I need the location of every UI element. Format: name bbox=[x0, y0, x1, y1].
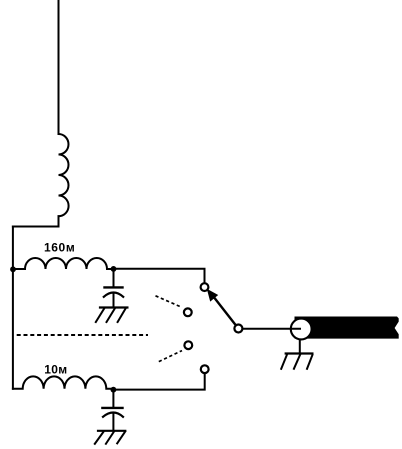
coax connector circle bbox=[291, 319, 312, 340]
capacitor C1 curved plate bbox=[104, 293, 123, 297]
switch S1 contact 4 (bottom) bbox=[201, 365, 209, 373]
dashed link to contact 3 bbox=[159, 351, 182, 362]
mechanical link dashed line bbox=[17, 334, 148, 336]
switch S1 pole contact bbox=[234, 325, 242, 333]
capacitor C1 top plate bbox=[105, 286, 123, 288]
coax cable body bbox=[295, 317, 399, 339]
ground G2 bar bbox=[98, 430, 125, 432]
ground G2 hatch 1 bbox=[95, 432, 104, 444]
svg-text:160м: 160м bbox=[44, 240, 75, 254]
junction node at 10m coil right bbox=[111, 387, 117, 393]
wire coil bottom to corner bbox=[58, 216, 60, 226]
wire left bus bbox=[12, 227, 14, 389]
junction node at 160m coil left bbox=[10, 266, 16, 272]
ground G2 hatch 3 bbox=[117, 432, 125, 444]
switch S1 contact 3 bbox=[184, 341, 192, 349]
ground G1 hatch 1 bbox=[96, 309, 104, 323]
switch S1 contact 1 (top) bbox=[201, 283, 209, 291]
capacitor C2 curved plate bbox=[103, 413, 123, 417]
capacitor C2 bottom lead bbox=[112, 414, 114, 431]
wire switch pole to coax center pin bbox=[242, 328, 301, 330]
wire antenna vertical lead bbox=[58, 0, 60, 134]
ground G3 hatch 3 bbox=[307, 355, 312, 369]
switch S1 arm bbox=[212, 295, 236, 326]
capacitor C1 bottom lead bbox=[113, 294, 115, 308]
ground G3 hatch 1 bbox=[281, 355, 287, 369]
wire 160m coil to switch top contact bbox=[114, 269, 205, 285]
capacitor C2 lead bbox=[112, 390, 114, 407]
junction node at 160m coil right bbox=[111, 266, 117, 272]
ground G2 hatch 2 bbox=[106, 432, 114, 444]
ground G3 hatch 2 bbox=[294, 355, 300, 369]
capacitor C2 top plate bbox=[102, 407, 122, 409]
ground G1 bar bbox=[100, 306, 127, 308]
ground G3 bar bbox=[286, 352, 313, 354]
ground G1 hatch 3 bbox=[118, 309, 126, 323]
dashed link to contact 2 bbox=[156, 296, 183, 308]
switch S1 contact 2 bbox=[184, 308, 192, 316]
capacitor C1 lead bbox=[113, 269, 115, 286]
svg-text:10м: 10м bbox=[44, 363, 67, 377]
wire switch bottom contact to 10m coil bbox=[113, 373, 204, 390]
wire horizontal top bbox=[13, 226, 59, 228]
inductor L3 (10m coil) bbox=[13, 376, 114, 388]
wire coax shield lead bbox=[299, 340, 301, 354]
inductor L2 (160m coil) bbox=[13, 258, 114, 269]
inductor L1 (vertical coil) bbox=[59, 134, 69, 216]
ground G1 hatch 2 bbox=[107, 309, 115, 323]
switch S1 arm arrowhead bbox=[207, 289, 218, 302]
